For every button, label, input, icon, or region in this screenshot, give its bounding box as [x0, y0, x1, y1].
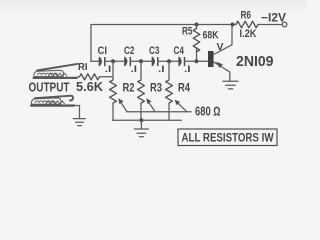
- node C dot: [167, 59, 171, 63]
- svg-text:R6: R6: [241, 10, 252, 22]
- svg-text:C4: C4: [174, 45, 185, 57]
- capacitor C4 .1: [179, 57, 185, 66]
- svg-text:ALL RESISTORS IW: ALL RESISTORS IW: [182, 130, 275, 144]
- capacitor C1 .1: [99, 57, 105, 66]
- svg-text:.I: .I: [184, 64, 191, 75]
- wire signal line (cap chain): [91, 60, 99, 62]
- svg-text:−I2V: −I2V: [261, 13, 286, 25]
- supply terminal -12V: [282, 22, 287, 27]
- capacitor C3 .1: [152, 57, 158, 66]
- wire C2 to node B: [130, 60, 152, 62]
- svg-text:RI: RI: [78, 61, 88, 73]
- svg-text:68K: 68K: [203, 30, 219, 42]
- 680 ohm callout line: [127, 111, 191, 113]
- resistor R3: [140, 61, 142, 80]
- wire C4 to base: [185, 60, 209, 62]
- node collector dot on rail: [231, 23, 235, 27]
- svg-text:V: V: [217, 41, 224, 53]
- transistor Q1 2N109: [208, 25, 232, 82]
- wire C3 to node C: [158, 60, 179, 62]
- svg-text:CI: CI: [98, 45, 108, 57]
- alligator clip upper (output lead): [33, 64, 79, 79]
- svg-text:R3: R3: [150, 82, 162, 94]
- svg-text:C2: C2: [124, 45, 135, 57]
- note box ALL RESISTORS 1W: [178, 129, 277, 146]
- svg-text:.I: .I: [105, 64, 112, 75]
- alligator clip lower (output lead): [30, 96, 75, 107]
- svg-text:R2: R2: [123, 82, 135, 94]
- node base dot: [195, 59, 199, 63]
- node B dot: [139, 59, 143, 63]
- svg-text:OUTPUT: OUTPUT: [29, 81, 70, 95]
- svg-text:2NI09: 2NI09: [236, 53, 274, 70]
- svg-text:.I: .I: [158, 64, 165, 75]
- svg-text:C3: C3: [149, 45, 160, 57]
- resistor R2: [112, 61, 114, 80]
- capacitor C2 .1: [125, 57, 131, 66]
- svg-text:680 Ω: 680 Ω: [195, 105, 221, 119]
- node A dot: [111, 59, 115, 63]
- callout arrow to R4: [175, 100, 187, 112]
- ground (emitter): [223, 81, 238, 89]
- node bus dot: [139, 118, 143, 122]
- wire top rail: [91, 25, 236, 62]
- node dot R5 top on rail: [195, 23, 199, 27]
- wire rail right of R6 to supply terminal: [258, 24, 282, 26]
- callout arrow to R2: [118, 98, 127, 112]
- callout arrow to R3: [146, 98, 155, 112]
- resistor R5 68K: [196, 25, 198, 29]
- svg-text:.I: .I: [131, 64, 138, 75]
- ground (output): [73, 119, 85, 126]
- wire ground bus: [113, 119, 182, 121]
- resistor R4: [168, 61, 170, 80]
- resistor R1 5.6K: [78, 76, 80, 78]
- svg-text:I.2K: I.2K: [240, 28, 257, 40]
- ground (bus): [134, 129, 148, 137]
- wire lower clip to ground: [75, 106, 80, 119]
- wire R1 to node A: [100, 76, 114, 78]
- resistor R6 1.2K: [236, 21, 258, 28]
- wire C1 to node A: [105, 60, 125, 62]
- wire bus to ground: [140, 120, 142, 128]
- svg-text:5.6K: 5.6K: [76, 80, 103, 94]
- svg-text:R5: R5: [182, 26, 193, 38]
- svg-text:R4: R4: [178, 82, 190, 94]
